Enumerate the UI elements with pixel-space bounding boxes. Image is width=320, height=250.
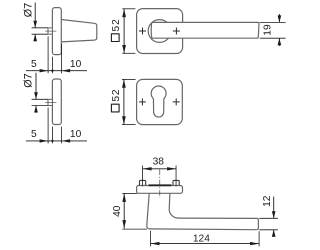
- dim 38 extension line right: [175, 166, 177, 187]
- dim O7 dimension line: [35, 73, 37, 99]
- dim 40 arrow top: [122, 194, 126, 202]
- square symbol: [111, 34, 119, 42]
- key rose square front: [137, 79, 183, 124]
- dim 40 extension lines: [122, 192, 137, 194]
- dim 12 arrow top: [272, 211, 276, 218]
- euro profile cylinder cutout: [151, 86, 166, 117]
- dim 5 arrow: [40, 139, 49, 142]
- square rose front: [137, 9, 183, 54]
- dim sq52 arrow bottom: [122, 116, 126, 124]
- dim sq52 dimension line: [123, 9, 125, 54]
- screw mark right: [173, 98, 180, 105]
- dim sq52 extension ticks: [122, 8, 135, 10]
- dim O7 arrow top: [34, 92, 38, 99]
- dim 124 arrow right: [250, 242, 259, 245]
- dim 12 extension lines: [259, 217, 278, 219]
- stub centerline: [45, 30, 56, 32]
- dim sq52 extension ticks: [122, 78, 136, 80]
- lever grip bar: [151, 22, 259, 38]
- screw mark left: [139, 98, 146, 105]
- dim 38 extension line left: [142, 166, 144, 187]
- dim sq52 dimension line: [123, 79, 125, 124]
- stub centerline: [45, 101, 56, 103]
- dim 5/10 extension lines: [47, 36, 49, 73]
- screw head left: [140, 180, 146, 185]
- svg-text:12: 12: [262, 195, 273, 207]
- dim sq52 arrow top: [122, 79, 126, 87]
- svg-text:10: 10: [70, 59, 82, 70]
- svg-text:40: 40: [112, 205, 123, 217]
- dim 19 dimension line: [278, 14, 280, 22]
- neck collar circle: [148, 20, 171, 43]
- dim 19 extension lines: [260, 21, 286, 23]
- svg-text:Ø7: Ø7: [23, 73, 35, 87]
- screw head right: [173, 180, 179, 185]
- dim O7 dimension line: [34, 3, 36, 28]
- dim 40 arrow bottom: [122, 220, 126, 228]
- dim 12 dimension line: [273, 197, 275, 219]
- rose centerline: [159, 170, 161, 198]
- dim 38 arrow left: [143, 167, 152, 170]
- rose side profile: [52, 8, 61, 55]
- dim 38 arrow right: [167, 167, 176, 170]
- dim 124 extension lines: [150, 231, 152, 247]
- key rose side profile: [52, 79, 61, 125]
- svg-text:Ø7: Ø7: [23, 3, 35, 17]
- handle plan outline: [147, 193, 259, 229]
- dim O7 arrow bottom: [33, 34, 37, 41]
- svg-text:52: 52: [111, 89, 122, 102]
- screw mark left: [139, 28, 146, 35]
- dim chain dot: [51, 70, 53, 72]
- dim 5/10 dimension line: [26, 140, 87, 142]
- screw mark right: [173, 28, 180, 35]
- dim O7 extension lines: [32, 27, 48, 29]
- dim chain dot: [51, 140, 53, 142]
- dim 40 dimension line: [123, 194, 125, 229]
- svg-text:5: 5: [31, 129, 37, 140]
- dim sq52 arrow bottom: [122, 45, 126, 53]
- square symbol: [111, 104, 119, 112]
- svg-text:124: 124: [193, 233, 210, 244]
- dim O7 extension lines: [32, 98, 48, 100]
- dim sq52 arrow top: [122, 9, 126, 17]
- svg-text:38: 38: [153, 156, 165, 167]
- dim O7 arrow top: [33, 21, 37, 28]
- dim 38 dimension line: [143, 168, 177, 170]
- dim 19 arrow top: [278, 15, 282, 22]
- key rose stub: [48, 99, 52, 105]
- dim 124 arrow left: [151, 242, 160, 245]
- rose edge plan: [137, 186, 183, 194]
- svg-text:10: 10: [70, 129, 82, 140]
- spindle stub: [48, 28, 52, 34]
- dim 10 arrow: [62, 139, 71, 142]
- dim 124 dimension line: [151, 243, 260, 245]
- spindle plate thick edge: [149, 184, 172, 186]
- handle neck side profile: [61, 20, 97, 42]
- dim 19 arrow bottom: [278, 38, 282, 45]
- dim 5/10 extension lines: [47, 108, 49, 144]
- dim 10 arrow: [62, 69, 71, 72]
- dim 12 arrow bottom: [272, 230, 276, 237]
- svg-text:19: 19: [263, 24, 274, 36]
- svg-text:52: 52: [111, 18, 122, 31]
- dim 5/10 dimension line: [26, 70, 87, 72]
- dim O7 arrow bottom: [34, 106, 38, 113]
- svg-text:5: 5: [31, 59, 37, 70]
- dim 5 arrow: [40, 69, 49, 72]
